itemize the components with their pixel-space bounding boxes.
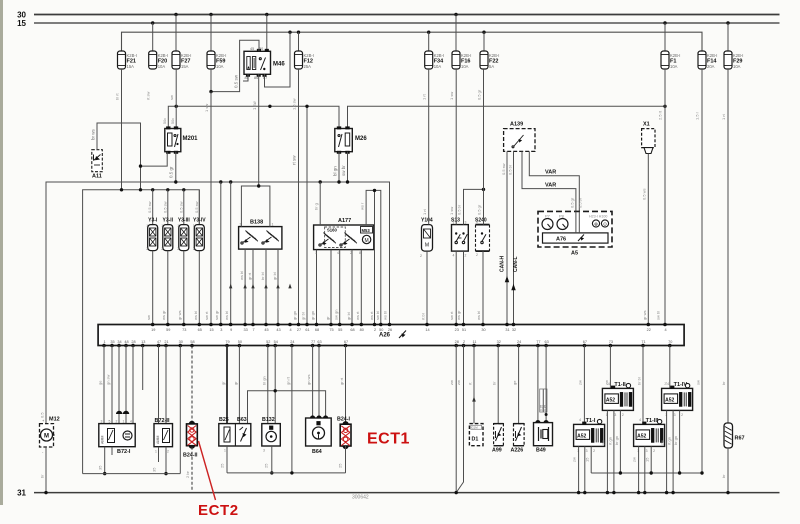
svg-text:zw: zw [449, 380, 454, 385]
wire B72-I pin2 stub [111, 447, 113, 455]
svg-text:15: 15 [645, 457, 650, 462]
svg-text:K2B-I: K2B-I [304, 53, 314, 58]
svg-text:gr rt: gr rt [247, 272, 252, 280]
svg-text:bl rt: bl rt [115, 92, 120, 100]
svg-text:1: 1 [272, 223, 274, 227]
ignition coil T1-I [574, 418, 605, 453]
ground gather rail left [83, 473, 181, 475]
svg-text:Y3-III: Y3-III [178, 218, 191, 224]
bus label 15 [17, 19, 26, 28]
svg-text:0.5 sw: 0.5 sw [234, 74, 239, 88]
wire A139 pin2 CAN-L [513, 151, 515, 325]
pressure sensor B132 [262, 417, 281, 453]
svg-text:VAR: VAR [545, 170, 556, 176]
svg-text:33: 33 [243, 328, 247, 332]
bus 30 wire [34, 14, 780, 16]
junction on bus 30 x=211 [209, 13, 212, 16]
ignition module B138 [239, 220, 282, 250]
svg-text:M201: M201 [183, 136, 199, 142]
net line y=106 (M26 to F1) [348, 106, 666, 128]
svg-text:T1-I: T1-I [586, 418, 596, 424]
wire S13 to ECU pin 51 [463, 251, 465, 325]
svg-text:A177: A177 [338, 218, 351, 224]
svg-text:28: 28 [455, 340, 459, 344]
svg-text:ECT1: ECT1 [367, 431, 410, 448]
svg-text:sw: sw [169, 95, 174, 100]
svg-text:B64: B64 [312, 449, 322, 455]
junction bus31 x=673.1 [671, 491, 674, 494]
svg-text:ws gr: ws gr [456, 310, 461, 320]
wire rail to injector Y3-I [152, 190, 154, 225]
junction on bus 30 x=456 [454, 13, 457, 16]
svg-text:25: 25 [220, 463, 225, 468]
svg-text:0.5 sw: 0.5 sw [178, 201, 183, 213]
svg-text:3: 3 [614, 413, 616, 417]
wire B25 to ground rail [220, 446, 228, 473]
svg-text:ws bl: ws bl [383, 311, 388, 320]
svg-text:59: 59 [166, 328, 170, 332]
wire bus30 to relay M46 pin30 [266, 15, 268, 52]
svg-text:15A: 15A [181, 64, 189, 69]
svg-text:10A: 10A [216, 64, 224, 69]
svg-text:gr bl: gr bl [346, 312, 351, 320]
wire ECU pin to bus31 b [456, 346, 463, 493]
wire label 0.5sw-gn [234, 74, 239, 88]
svg-text:0.5 br: 0.5 br [457, 204, 462, 215]
svg-text:A52: A52 [637, 433, 646, 439]
svg-text:3: 3 [101, 420, 103, 424]
wire R67 to bus31 [721, 448, 728, 493]
svg-text:M: M [365, 238, 369, 244]
svg-text:28: 28 [131, 340, 135, 344]
module A99 [492, 424, 503, 454]
svg-text:0.5 ws: 0.5 ws [642, 188, 647, 200]
injector Y3-IV [193, 201, 206, 251]
svg-text:B138: B138 [250, 220, 263, 226]
svg-text:4: 4 [639, 418, 641, 422]
wire A177 pin to ECU x=352 [351, 250, 353, 325]
wire ECU pin13 stub [142, 346, 144, 391]
plot number 300642 [352, 495, 369, 501]
wire net S (y=32) [122, 32, 703, 51]
sensor B24-I (ECT1) [337, 417, 351, 450]
svg-text:73: 73 [609, 340, 613, 344]
svg-text:9: 9 [230, 328, 232, 332]
fuse F22 [480, 51, 499, 69]
wire relay pin85 stub [243, 74, 248, 81]
svg-text:bl gn: bl gn [262, 376, 267, 385]
svg-text:14: 14 [425, 328, 429, 332]
wire label F27 [169, 95, 174, 100]
svg-text:zw: zw [578, 380, 583, 385]
CAN-L arrow [511, 256, 519, 290]
wire injector Y3-I to ECU [152, 251, 154, 325]
wire bus30 to F59 [210, 15, 212, 52]
ground gather rail mid [227, 472, 346, 474]
pump M201 [163, 118, 198, 154]
junction net182 tap9 [229, 180, 232, 183]
junction branch [274, 389, 277, 392]
svg-text:1 rt: 1 rt [422, 93, 427, 100]
svg-text:B24-II: B24-II [183, 453, 198, 459]
svg-text:br gn: br gn [673, 436, 678, 445]
svg-text:ws rt: ws rt [355, 311, 360, 320]
wire B138 pin5 to ECU [265, 249, 267, 325]
svg-text:1: 1 [224, 449, 226, 453]
svg-text:A99: A99 [492, 448, 502, 454]
svg-text:50: 50 [379, 328, 383, 332]
net line y=182 [46, 182, 390, 423]
bus 31 wire [34, 492, 780, 494]
svg-text:2: 2 [622, 413, 624, 417]
labels VAR wires [570, 197, 583, 208]
fuse F29 [724, 51, 743, 69]
svg-text:K2B-I: K2B-I [461, 53, 471, 58]
svg-text:24: 24 [517, 340, 521, 344]
svg-text:1: 1 [476, 220, 478, 224]
wire label F20 [146, 91, 151, 100]
svg-text:0.5: 0.5 [40, 412, 45, 418]
svg-text:K2B-I: K2B-I [489, 53, 499, 58]
svg-text:gr rt: gr rt [339, 377, 344, 385]
junction net182 A177a [319, 180, 322, 183]
wire label F12b [292, 98, 297, 110]
fuse F20 [149, 51, 168, 69]
wire label br-g [314, 203, 319, 210]
wire label 1sw [252, 100, 257, 110]
svg-text:25A: 25A [304, 64, 312, 69]
junction coil rail x=651.2 [650, 471, 653, 474]
junction on net S x=290 [288, 31, 291, 34]
svg-text:T1-III: T1-III [646, 418, 659, 424]
wire M26 right to net182 [347, 152, 349, 182]
shielded wire ECU to B24-II [191, 346, 193, 423]
wire A139 pin4 VAR [529, 151, 579, 233]
svg-text:K2B-I: K2B-I [181, 53, 191, 58]
wire net182 tap to ECU pin 3 [220, 182, 222, 325]
svg-text:R67: R67 [735, 436, 745, 442]
wire netS to F22 [483, 32, 485, 51]
svg-text:15A: 15A [127, 64, 135, 69]
label VAR 2 [545, 182, 556, 188]
wire bus15 to F29 [727, 23, 729, 51]
svg-text:M46: M46 [273, 62, 285, 68]
wire B138 pin3 to ECU [244, 249, 246, 325]
wires T1-IV down [660, 410, 680, 492]
wire F29 to R67 [727, 69, 729, 423]
wire B138 pin9 to ECU [252, 249, 254, 325]
svg-text:M53: M53 [362, 228, 371, 233]
junction net182 tap3 [219, 180, 222, 183]
fuse F21 [118, 51, 137, 69]
svg-text:2: 2 [463, 340, 465, 344]
svg-text:M26: M26 [355, 136, 367, 142]
motor M12 [39, 417, 60, 455]
svg-text:77: 77 [536, 340, 540, 344]
svg-text:10A: 10A [670, 64, 678, 69]
svg-text:10A: 10A [158, 64, 166, 69]
wire ECU to B72-I pins [104, 346, 133, 424]
wire B132 to ground rail [264, 446, 272, 473]
svg-text:15: 15 [585, 457, 590, 462]
svg-text:VAR: VAR [545, 182, 556, 188]
valve Y104 [420, 218, 433, 259]
svg-text:gr bl: gr bl [301, 312, 306, 320]
injector Y3-III [177, 201, 190, 251]
wire labels below ECU [98, 374, 727, 385]
wire F21 down [115, 69, 122, 190]
fuse F59 [207, 51, 226, 69]
diagnostic unit A139 [504, 122, 535, 152]
svg-text:gr gn: gr gn [292, 311, 297, 320]
svg-text:67: 67 [344, 340, 348, 344]
svg-text:gr ws: gr ws [177, 310, 182, 320]
svg-text:1: 1 [453, 220, 455, 224]
svg-text:rt gn: rt gn [667, 437, 672, 445]
svg-text:ws bl: ws bl [224, 311, 229, 320]
svg-text:br gn: br gn [614, 436, 619, 445]
svg-text:70: 70 [668, 340, 672, 344]
svg-text:ws bl: ws bl [239, 271, 244, 280]
pin labels A177 bottom [315, 251, 361, 255]
svg-text:3: 3 [220, 328, 222, 332]
svg-text:ws bl: ws bl [193, 311, 198, 320]
svg-text:2: 2 [681, 413, 683, 417]
bus label 31 [17, 489, 26, 498]
svg-text:B72-I: B72-I [117, 449, 131, 455]
svg-text:0.5 sw: 0.5 sw [501, 163, 506, 175]
wire label M12 top [40, 412, 45, 418]
junction net106 x=269.9 [268, 105, 271, 108]
svg-text:300642: 300642 [352, 495, 369, 501]
svg-text:rt sw: rt sw [292, 155, 297, 165]
wire M26 left to net182 [338, 152, 340, 182]
junction injector rail x=121.5 [120, 188, 123, 191]
wire labels above ECU [146, 310, 661, 320]
svg-text:B132: B132 [262, 417, 275, 423]
junction R67 bus31 [726, 491, 729, 494]
svg-text:0.35: 0.35 [543, 405, 547, 411]
svg-text:T1-II: T1-II [614, 382, 626, 388]
svg-text:5A: 5A [489, 64, 494, 69]
svg-text:73: 73 [182, 328, 186, 332]
svg-text:13: 13 [141, 340, 145, 344]
wire bus30 to F27 [175, 15, 177, 52]
junction on net S x=428.7 [427, 31, 430, 34]
bus 15 wire [34, 22, 780, 24]
junction coil rail x=679.6 [678, 471, 681, 474]
junction B132 ground [270, 471, 273, 474]
svg-text:zw: zw [601, 440, 606, 445]
svg-text:50: 50 [238, 340, 242, 344]
svg-text:ws rt: ws rt [369, 311, 374, 320]
svg-text:A76: A76 [556, 237, 566, 243]
svg-text:br bl: br bl [260, 272, 265, 280]
svg-text:4: 4 [667, 382, 669, 386]
wire F59 to relay coil loop [211, 40, 259, 91]
wire M201 right pin to net182 [175, 152, 177, 182]
wire ECU to T1-IV pin4 [669, 346, 671, 389]
svg-text:A139: A139 [510, 122, 523, 128]
wire label br-ws [91, 128, 96, 140]
wire label F14 [695, 111, 700, 120]
svg-text:br bl: br bl [637, 377, 642, 385]
svg-text:48: 48 [124, 340, 128, 344]
ignition coil T1-III [634, 418, 665, 453]
switch S13 [451, 218, 468, 258]
CAN-H arrow [500, 256, 510, 283]
svg-text:K2B-I: K2B-I [216, 53, 226, 58]
svg-text:1: 1 [103, 340, 105, 344]
svg-text:4: 4 [289, 328, 291, 332]
svg-text:30: 30 [481, 328, 485, 332]
svg-text:M12: M12 [49, 417, 60, 423]
svg-text:sw br: sw br [341, 165, 346, 176]
fuse F1 [661, 51, 680, 69]
svg-text:50c: 50c [163, 118, 167, 124]
junction net106 x=307 [305, 105, 308, 108]
svg-text:2: 2 [653, 449, 655, 453]
svg-text:15: 15 [209, 328, 213, 332]
junction A11 wire [139, 164, 142, 167]
svg-text:15: 15 [17, 19, 26, 28]
svg-text:A52: A52 [577, 433, 586, 439]
svg-text:M: M [44, 434, 49, 440]
svg-text:1.5 sw: 1.5 sw [292, 98, 297, 110]
junction B72-II ground [164, 472, 167, 475]
svg-text:1 rt: 1 rt [721, 113, 726, 120]
svg-text:1 sw: 1 sw [449, 92, 454, 100]
svg-text:2: 2 [146, 247, 148, 251]
wire rail to injector Y3-IV [198, 190, 200, 225]
label ECT2 [198, 502, 239, 519]
svg-text:A52: A52 [665, 397, 674, 403]
junction net182 M201 [174, 180, 177, 183]
svg-text:0.5 sw: 0.5 sw [194, 201, 199, 213]
svg-text:⊙: ⊙ [603, 221, 607, 226]
wires T1-III down [632, 446, 652, 492]
svg-text:rt sw: rt sw [146, 91, 151, 100]
svg-text:61: 61 [305, 328, 309, 332]
wire rail to injector Y3-III [183, 190, 185, 225]
wire relay pin87 to net S [265, 32, 291, 87]
fuse F12 [295, 51, 314, 69]
junction injector rail x=152.7 [151, 188, 154, 191]
svg-text:2: 2 [350, 251, 352, 255]
svg-text:bl gn: bl gn [333, 166, 338, 176]
svg-text:2: 2 [161, 247, 163, 251]
wire X1 to ECU pin 22 [647, 154, 649, 326]
relay M46 [244, 47, 285, 80]
junction on bus 15 x=665 [663, 21, 666, 24]
junction on bus 30 x=266.8 [265, 13, 268, 16]
wire ECU to A226 [518, 346, 520, 424]
wire ECU to B72-II pins [159, 346, 167, 424]
svg-text:1: 1 [155, 450, 157, 454]
svg-text:B24-I: B24-I [337, 417, 350, 423]
wire label F1 [658, 110, 663, 120]
wire A177 pin to ECU x=339.7 [339, 250, 341, 325]
svg-text:gn ws: gn ws [306, 375, 311, 385]
svg-text:31: 31 [17, 489, 26, 498]
junction F22 wire [482, 188, 485, 191]
svg-text:0.5 gr: 0.5 gr [477, 89, 482, 100]
svg-text:77: 77 [311, 340, 315, 344]
svg-text:AMM: AMM [156, 436, 160, 444]
svg-text:sw gn: sw gn [334, 310, 339, 320]
wire net182 tap to ECU pin 9 [230, 182, 232, 325]
svg-text:32: 32 [497, 340, 501, 344]
junction zw bus31 [455, 491, 458, 494]
svg-text:P8: P8 [559, 214, 565, 219]
ECU top pins with numbers [151, 323, 667, 332]
svg-text:1 sw: 1 sw [204, 104, 209, 112]
twisted pair ECU to B49 [538, 346, 548, 423]
wire ECU to B64 mid [318, 346, 320, 419]
wire label F29 [721, 113, 726, 120]
svg-text:Y3-I: Y3-I [148, 218, 158, 224]
svg-text:rt bl: rt bl [421, 313, 426, 320]
switch S240 [475, 218, 490, 258]
svg-text:gr bl: gr bl [272, 272, 277, 280]
svg-text:br ws: br ws [91, 128, 96, 140]
wire injector Y3-IV to ECU [198, 251, 200, 325]
wire F27 to M201 [175, 69, 177, 129]
svg-text:3: 3 [674, 413, 676, 417]
fuse F14 [698, 51, 717, 69]
svg-text:43: 43 [276, 328, 280, 332]
svg-text:4: 4 [337, 251, 339, 255]
svg-text:68: 68 [350, 328, 354, 332]
junction M12 bus31 [44, 491, 47, 494]
svg-text:S160: S160 [327, 228, 337, 233]
svg-text:br g: br g [314, 203, 319, 210]
air mass meter B72-II [154, 418, 173, 454]
svg-text:21: 21 [164, 340, 168, 344]
svg-text:A226: A226 [511, 448, 524, 454]
svg-text:zw: zw [456, 380, 461, 385]
wire bus15 to F1 [664, 23, 666, 51]
junction F1 wire net106 [663, 105, 666, 108]
injector Y3-I [146, 201, 158, 251]
junction bracket tap [373, 189, 376, 192]
ignition coil T1-IV [662, 382, 693, 417]
sensor B24-II (ECT2) [183, 421, 198, 459]
svg-text:ws gr: ws gr [161, 310, 166, 320]
wire A177 pin to ECU x=361.3 [360, 250, 362, 325]
svg-text:1: 1 [161, 224, 163, 228]
svg-text:23: 23 [455, 328, 459, 332]
svg-text:A11: A11 [92, 174, 102, 180]
svg-text:35: 35 [110, 340, 114, 344]
svg-text:1.5 r: 1.5 r [695, 111, 700, 120]
connector X1 [642, 122, 655, 154]
svg-text:0.5 sw: 0.5 sw [147, 201, 152, 213]
svg-text:80: 80 [360, 328, 364, 332]
svg-text:1: 1 [177, 224, 179, 228]
wire B72-II pin2 to rail [165, 447, 167, 474]
junction net182 M26b [346, 180, 349, 183]
junction bus31 x=578.6 [577, 491, 580, 494]
wire label sw-br [341, 165, 346, 176]
svg-text:P7: P7 [545, 214, 551, 219]
wire ECU pin to bus31 a [455, 346, 457, 493]
svg-text:G1M: G1M [472, 426, 479, 430]
wire B138 pin6 to ECU [277, 249, 279, 325]
svg-text:2: 2 [116, 420, 118, 424]
fuse F27 [172, 51, 191, 69]
wire B138 pin1 up [259, 186, 270, 227]
